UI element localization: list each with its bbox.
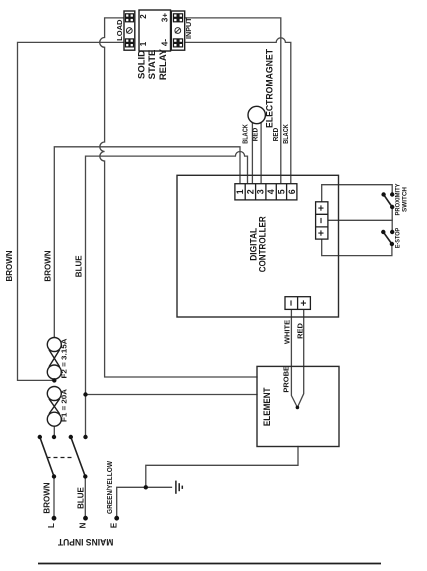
- proximity switch blade: [384, 195, 393, 208]
- wire brown F2 to controller terminal 1: [54, 147, 240, 337]
- svg-text:ELECTROMAGNET: ELECTROMAGNET: [264, 49, 275, 128]
- SSR screw circle left: [126, 28, 180, 34]
- switch S1 pole L blade: [40, 195, 392, 477]
- svg-text:BROWN: BROWN: [5, 250, 14, 281]
- node earth junction: [144, 485, 148, 489]
- wire red thermocouple: [297, 309, 303, 407]
- svg-text:WHITE: WHITE: [283, 320, 292, 344]
- svg-text:RED: RED: [296, 323, 305, 339]
- proximity switch contacts: [390, 192, 394, 196]
- switch pole N contacts: [83, 435, 87, 439]
- svg-text:BLUE: BLUE: [75, 255, 84, 277]
- wire SSR input 3+ to controller terminal 5: [185, 18, 281, 184]
- svg-text:1: 1: [139, 41, 148, 46]
- svg-text:+: +: [316, 205, 328, 211]
- svg-text:5: 5: [276, 189, 286, 194]
- wire e-stop back to controller plus: [322, 239, 392, 256]
- wire switch pole L to terminal L: [53, 477, 55, 519]
- ground symbol: [176, 481, 182, 494]
- svg-text:LOAD: LOAD: [115, 19, 124, 41]
- svg-text:PROBE: PROBE: [282, 366, 291, 393]
- svg-text:4: 4: [266, 189, 276, 194]
- probe tip dot: [296, 406, 300, 410]
- svg-text:E: E: [110, 522, 119, 528]
- svg-text:+: +: [316, 230, 328, 236]
- wire element earth bond: [146, 447, 298, 488]
- svg-text:BLUE: BLUE: [77, 486, 86, 508]
- wire fuse F1 to switch: [53, 427, 55, 437]
- svg-text:3: 3: [256, 189, 266, 194]
- svg-text:F2 = 3.15A: F2 = 3.15A: [60, 338, 69, 379]
- wire brown from SSR load pin1 down to fuse junction: [18, 42, 125, 380]
- svg-text:SWITCH: SWITCH: [401, 187, 408, 212]
- wire electromagnet coil red lead to terminal 3: [260, 123, 262, 184]
- svg-text:BROWN: BROWN: [44, 250, 53, 281]
- svg-text:2: 2: [139, 14, 148, 19]
- switch S1 mechanical link: [47, 457, 74, 459]
- svg-text:BROWN: BROWN: [42, 482, 51, 513]
- SSR terminal screw top-left: [125, 13, 134, 22]
- digital controller U2 box: [177, 175, 339, 317]
- wire blue neutral to controller terminal 2 and element: [86, 152, 248, 438]
- svg-text:CONTROLLER: CONTROLLER: [257, 216, 268, 272]
- svg-text:−: −: [285, 300, 297, 306]
- svg-text:1: 1: [235, 189, 245, 194]
- wire switch pole N to terminal N: [84, 477, 86, 519]
- svg-text:BLACK: BLACK: [243, 124, 250, 144]
- svg-text:RED: RED: [273, 128, 280, 141]
- svg-text:RED: RED: [252, 128, 259, 141]
- solid state relay U1 body: [124, 10, 185, 51]
- svg-text:STATE: STATE: [147, 50, 158, 80]
- svg-text:MAINS INPUT: MAINS INPUT: [58, 536, 114, 547]
- wire blue branch to element: [86, 394, 258, 396]
- wire SSR load pin2 to element live feed: [100, 18, 257, 377]
- terminal strip 1-6: [235, 184, 297, 200]
- svg-text:GREEN/YELLOW: GREEN/YELLOW: [107, 461, 114, 514]
- svg-text:ELEMENT: ELEMENT: [262, 387, 273, 426]
- fuse F1: [47, 387, 61, 401]
- wire electromagnet coil black lead to terminal 2: [251, 123, 253, 184]
- svg-text:BLACK: BLACK: [283, 124, 290, 144]
- SSR terminal screw top-right: [173, 13, 183, 22]
- SSR terminal screw bottom-right: [173, 38, 183, 47]
- controller minus-plus thermocouple block: [285, 297, 310, 310]
- e-stop blade: [383, 232, 392, 244]
- controller plus-minus-plus block: [316, 202, 328, 239]
- svg-text:SOLID: SOLID: [137, 50, 148, 79]
- terminal N dot: [83, 516, 88, 521]
- svg-text:−: −: [316, 218, 328, 224]
- switch S1 pole N blade: [71, 437, 86, 477]
- electromagnet coil: [248, 106, 265, 123]
- svg-text:RELAY: RELAY: [158, 48, 169, 80]
- svg-text:INPUT: INPUT: [184, 17, 193, 39]
- switch pole L contacts: [52, 435, 56, 439]
- junction and contact dots: [38, 192, 395, 520]
- node blue element junction: [83, 392, 87, 396]
- svg-text:N: N: [79, 522, 88, 528]
- SSR terminal screw bottom-left: [125, 38, 134, 47]
- svg-text:3+: 3+: [161, 13, 170, 22]
- element heater box: [257, 366, 339, 446]
- svg-text:+: +: [298, 300, 310, 306]
- e-stop contacts: [390, 230, 394, 234]
- wire proximity switch to e-stop: [391, 207, 393, 232]
- wire white thermocouple: [291, 309, 297, 407]
- svg-text:L: L: [47, 523, 56, 528]
- footer rule: [38, 563, 381, 565]
- wire controller plus to proximity switch: [322, 185, 393, 202]
- fuse F2: [47, 338, 61, 427]
- svg-text:F1 = 20A: F1 = 20A: [60, 388, 69, 422]
- svg-text:6: 6: [287, 189, 297, 194]
- terminal L dot: [52, 516, 57, 521]
- terminal E dot: [114, 516, 119, 521]
- wire green/yellow earth: [117, 487, 172, 518]
- wire SSR input 4- to controller terminal 6: [185, 38, 291, 184]
- svg-text:2: 2: [245, 189, 255, 194]
- node fuse junction: [52, 378, 56, 382]
- SSR screw circle right: [175, 28, 181, 34]
- svg-text:E-STOP: E-STOP: [395, 227, 402, 248]
- svg-text:4-: 4-: [161, 39, 170, 46]
- wire controller minus tee: [328, 219, 392, 221]
